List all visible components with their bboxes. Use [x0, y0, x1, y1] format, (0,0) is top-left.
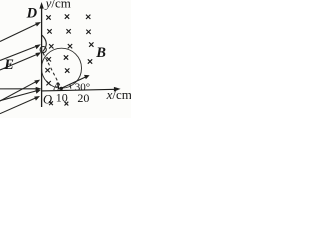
ray 6 bottom-left lowest diagonal: [0, 96, 40, 114]
svg-text:x/cm: x/cm: [106, 87, 131, 102]
big trajectory circle: [42, 48, 82, 88]
cross (91.3,44.6): [89, 42, 93, 46]
cross (88.5,31.8): [86, 30, 90, 34]
cross (67.2,70.6): [65, 68, 69, 72]
cross (51.3,46.3): [49, 44, 53, 48]
cross below axis (66.4,103.6): [65, 102, 69, 106]
cross (88.2,16.8): [86, 15, 90, 19]
ray 3 left: [0, 52, 41, 70]
ray 4 bottom-left upper diagonal to axis y=79.6: [0, 80, 40, 101]
x-axis right part: [42, 89, 116, 91]
y-axis: [41, 7, 43, 108]
horizontal ray into origin: [0, 88, 37, 90]
svg-text:E: E: [3, 57, 14, 73]
dashed chord C to A: [43, 53, 61, 87]
cross (48.5,17.5): [46, 15, 50, 19]
velocity arrow at A (30 deg): [61, 75, 89, 88]
svg-text:B: B: [95, 45, 106, 61]
svg-text:10: 10: [56, 91, 68, 105]
x-axis arrowhead right: [114, 87, 121, 92]
point A dot: [60, 87, 63, 90]
small trajectory arc at entry: [42, 35, 46, 51]
cross (66,57.5): [64, 55, 68, 59]
cross (90,61.5): [88, 59, 92, 63]
field crosses: [45, 14, 93, 105]
cross below axis (51,103.2): [49, 101, 53, 105]
cross (67,16.6): [65, 14, 69, 18]
svg-text:O: O: [43, 92, 52, 106]
ray 1 top-left: [0, 22, 41, 42]
cross (48.8,59.3): [47, 57, 51, 61]
cross (48.6,83.2): [46, 81, 50, 85]
svg-text:y/cm: y/cm: [44, 0, 71, 10]
ray 2 left: [0, 44, 41, 60]
angle arc at A: [70, 84, 71, 89]
svg-text:D: D: [26, 6, 38, 22]
cross (70,46.2): [68, 44, 72, 48]
y-axis arrowhead: [39, 2, 43, 9]
origin ray arrowhead: [36, 87, 42, 91]
cross (49.5,31.4): [47, 29, 51, 33]
cross (47.6,70.2): [45, 68, 49, 72]
ray 5 bottom-left diagonal to origin: [0, 90, 41, 101]
background: [0, 0, 131, 118]
cross (68.6,31.3): [66, 29, 70, 33]
svg-text:30°: 30°: [75, 82, 90, 94]
junction point marker C: [40, 47, 46, 53]
